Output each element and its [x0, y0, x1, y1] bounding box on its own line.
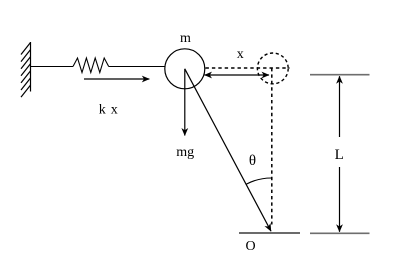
svg-text:x: x: [237, 47, 244, 62]
dashed circle (displaced mass position): [257, 53, 288, 84]
force arrow k x: [84, 78, 149, 80]
spring k: [73, 58, 109, 73]
weight arrow mg: [184, 69, 186, 136]
svg-text:m: m: [180, 31, 191, 46]
dimension arrow L lower: [339, 167, 341, 232]
pendulum rod arrow to O: [185, 69, 271, 231]
ground line at O: [239, 232, 300, 234]
dashed vertical line through pivot: [271, 68, 273, 225]
dimension arrow L upper: [339, 76, 341, 137]
mass m (circle): [165, 49, 205, 89]
svg-text:L: L: [335, 147, 344, 163]
svg-text:k x: k x: [99, 103, 118, 118]
dashed line: mass to displaced position: [206, 67, 290, 69]
bottom reference tick: [310, 232, 370, 234]
wire: wall to spring: [31, 66, 74, 68]
svg-text:θ: θ: [249, 153, 256, 169]
svg-text:O: O: [245, 239, 255, 254]
wall (fixed support): [21, 42, 31, 97]
top reference tick: [310, 74, 370, 76]
svg-text:mg: mg: [176, 145, 194, 160]
displacement arrow x (double headed): [205, 74, 270, 76]
angle arc theta: [246, 178, 271, 184]
wire: spring to mass: [109, 66, 165, 68]
